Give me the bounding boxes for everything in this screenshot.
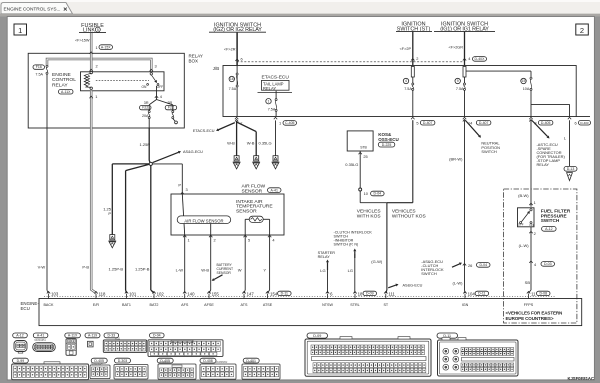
svg-text:OSS-ECU: OSS-ECU xyxy=(378,137,399,142)
KOS / no-KOS merge bracket xyxy=(359,191,361,203)
wire (BR-W)/(L-W) to ECU pin 104 xyxy=(464,120,466,290)
svg-text:D-11: D-11 xyxy=(478,292,485,296)
ECU pin 6 (NTSW) xyxy=(326,292,329,294)
svg-text:154: 154 xyxy=(270,292,278,297)
ECU pin 154 (ATSE) xyxy=(266,292,269,294)
svg-text:W-B: W-B xyxy=(201,268,209,273)
wire branch to neutral position switch (arrow) xyxy=(466,121,480,136)
svg-text:15: 15 xyxy=(522,79,526,83)
ECU pin 118 (E/R) xyxy=(94,292,97,294)
wire 0.35LG from KOS STB pin 25 xyxy=(359,152,362,154)
svg-text:104: 104 xyxy=(468,292,476,297)
svg-text:STB: STB xyxy=(360,145,367,149)
svg-text:AFSE: AFSE xyxy=(204,303,214,307)
svg-text:9: 9 xyxy=(457,79,459,83)
wire IG2 through J/B fuse 16 xyxy=(236,66,238,117)
connector D-405 pinout xyxy=(91,358,107,363)
ECU connector dotted line xyxy=(44,295,556,297)
svg-text:1.25P: 1.25P xyxy=(140,142,151,147)
ECU pin 155 (AFSE) xyxy=(207,292,210,294)
wire W-B no.2 down to body connector xyxy=(237,122,257,132)
svg-text:LG: LG xyxy=(320,268,325,273)
wire IG1 outer branch to junction 6 xyxy=(531,103,570,105)
svg-text:WITHOUT KOS: WITHOUT KOS xyxy=(392,214,426,220)
svg-text:D-225: D-225 xyxy=(382,143,392,147)
svg-text:KJSF0E81AC: KJSF0E81AC xyxy=(567,376,594,381)
wire W to ECU pin 147 xyxy=(244,235,246,290)
svg-text:1: 1 xyxy=(279,121,281,126)
svg-text:(L-W): (L-W) xyxy=(453,280,464,285)
svg-text:OFF: OFF xyxy=(157,85,164,89)
svg-text:ETACS-ECU: ETACS-ECU xyxy=(262,75,290,81)
ECU pin 147 (ATS) xyxy=(242,292,245,294)
svg-text:<F>15W: <F>15W xyxy=(75,39,90,43)
svg-text:W-B: W-B xyxy=(247,141,255,146)
svg-text:D-04: D-04 xyxy=(479,263,487,267)
svg-text:155: 155 xyxy=(212,292,220,297)
svg-text:A-119: A-119 xyxy=(88,334,97,338)
svg-text:3: 3 xyxy=(155,64,157,69)
svg-text:A-11X: A-11X xyxy=(68,334,78,338)
svg-text:140: 140 xyxy=(187,292,195,297)
battery current sensor tap xyxy=(214,275,223,280)
svg-text:RELAY: RELAY xyxy=(318,255,331,259)
splice 10 (D-04) xyxy=(359,188,362,191)
sheet number box 1 xyxy=(14,24,27,35)
svg-text:1: 1 xyxy=(268,99,270,103)
wire 1.25P from F22 to junction node xyxy=(148,128,150,161)
wire P to air flow sensor terminal 3 xyxy=(152,163,182,165)
svg-text:0.35LG: 0.35LG xyxy=(259,141,272,146)
ECU pin 11 (FFPS) xyxy=(527,292,530,294)
svg-text:D-403: D-403 xyxy=(580,121,589,125)
svg-text:3R: 3R xyxy=(144,101,149,105)
svg-text:BAT1: BAT1 xyxy=(122,303,131,307)
wire branch to ASTC-ECU / spare connector / stop lamp relay xyxy=(532,121,548,137)
svg-text:111: 111 xyxy=(388,292,395,297)
band under tab bar xyxy=(0,14,600,17)
wire L to off-page connector D-13 xyxy=(569,120,571,166)
junction 8 at J/B bottom xyxy=(529,117,532,119)
svg-text:ATS: ATS xyxy=(241,303,248,307)
svg-text:P: P xyxy=(178,183,181,188)
svg-text:W: W xyxy=(238,268,242,273)
tab: ENGINE CONTROL SYS... xyxy=(1,3,73,14)
svg-text:E/R: E/R xyxy=(93,303,99,307)
svg-text:D-407: D-407 xyxy=(479,121,489,125)
svg-text:118: 118 xyxy=(99,292,106,297)
svg-text:D-405: D-405 xyxy=(541,121,551,125)
ECU pin 111 (ST) xyxy=(384,292,387,294)
svg-text:18: 18 xyxy=(358,292,363,297)
wire W-B no.1 down to body connector xyxy=(236,121,238,156)
terminals 1 2 5 4 at sensor box bottom xyxy=(183,235,186,237)
svg-text:FFPS: FFPS xyxy=(524,303,534,307)
wire W-B to ECU pin 155 xyxy=(210,235,212,290)
svg-text:SWITCH: SWITCH xyxy=(481,149,497,154)
svg-text:<VEHICLES FOR EASTERN: <VEHICLES FOR EASTERN xyxy=(506,311,563,316)
svg-text:(B-W): (B-W) xyxy=(518,193,529,198)
junction 7 at J/B bottom (IG2 output) xyxy=(235,117,238,119)
wire 0.35LG tail-lamp output down to body connector xyxy=(274,117,277,119)
wire relay-box internal bus (thick hollow) xyxy=(47,59,151,72)
connector D-04 pinout xyxy=(150,333,165,338)
svg-text:D-03: D-03 xyxy=(544,262,552,266)
fuse F16 7.5A xyxy=(33,65,45,69)
svg-text:5: 5 xyxy=(97,28,99,32)
wire V-W from F16 down to ECU pin 103 xyxy=(46,128,48,290)
svg-text:D-09: D-09 xyxy=(313,334,321,338)
svg-text:WITH KOS: WITH KOS xyxy=(357,214,381,220)
svg-text:D-04: D-04 xyxy=(153,334,161,338)
svg-text:P-B: P-B xyxy=(82,264,89,269)
connector D-303 pinout xyxy=(115,358,131,363)
svg-text:W-B: W-B xyxy=(227,141,235,146)
svg-text:D-08: D-08 xyxy=(539,292,547,296)
svg-text:LG: LG xyxy=(348,268,353,273)
relay coil xyxy=(90,71,92,73)
svg-text:ENGINE: ENGINE xyxy=(52,72,71,78)
junction 6 at J/B bottom xyxy=(568,117,571,119)
svg-text:AFS: AFS xyxy=(181,303,189,307)
connector D-405b pinout xyxy=(157,358,173,363)
svg-text:AIR FLOW SENSOR: AIR FLOW SENSOR xyxy=(184,218,223,223)
svg-text:F16: F16 xyxy=(36,65,42,69)
splice 4 (D-03) xyxy=(529,261,532,263)
svg-text:103: 103 xyxy=(51,292,59,297)
svg-text:10A: 10A xyxy=(523,87,530,91)
junction 14 at J/B bottom xyxy=(463,117,466,119)
wire ST from J/B junction 5 down xyxy=(411,117,414,119)
svg-text:7.5A: 7.5A xyxy=(404,87,412,91)
svg-text:<F>2P: <F>2P xyxy=(400,47,412,51)
svg-text:101: 101 xyxy=(129,292,137,297)
thermistor RT (intake air temp) xyxy=(249,216,263,222)
ECU pin 140 (AFS) xyxy=(183,292,186,294)
wire (B-W) from junction 8 to fuel filter pressure switch xyxy=(530,120,532,207)
svg-text:D-405: D-405 xyxy=(94,359,104,363)
connector D-408 pinout xyxy=(200,358,216,363)
splice 26 (D-04) to AS&G-ECU / clutch interlock switch xyxy=(463,264,466,266)
svg-text:V-W: V-W xyxy=(38,264,46,269)
ECU pin 101 (BAT1) xyxy=(125,292,128,294)
svg-text:SB: SB xyxy=(525,280,531,285)
svg-text:IGN: IGN xyxy=(462,303,469,307)
svg-text:RELAY: RELAY xyxy=(537,162,550,167)
wire IG2 down to J/B xyxy=(236,33,238,66)
svg-text:SWITCH: SWITCH xyxy=(541,218,560,223)
svg-text:ON: ON xyxy=(141,85,147,89)
wire relay terminal 1 down (P-B thick hollow) xyxy=(90,91,93,128)
relay box outline xyxy=(28,53,184,128)
svg-text:2: 2 xyxy=(214,238,216,243)
wire ST through J/B fuse 4 xyxy=(411,67,414,78)
switch: fuel filter pressure switch A-12 xyxy=(518,208,535,227)
svg-text:SWITCH (P, N): SWITCH (P, N) xyxy=(334,242,359,246)
svg-text:RELAY: RELAY xyxy=(263,86,276,91)
svg-text:BOX: BOX xyxy=(189,59,199,64)
ecu KOS&OSS-ECU xyxy=(347,131,373,151)
svg-text:<F>2GR: <F>2GR xyxy=(448,45,463,49)
svg-text:2: 2 xyxy=(534,231,536,236)
svg-text:NTSW: NTSW xyxy=(322,303,333,307)
ECU pin 104 (IGN) xyxy=(463,292,466,294)
wire IG1 through J/B fuse 9 xyxy=(463,67,466,78)
svg-text:7.5A: 7.5A xyxy=(229,87,237,91)
svg-text:102: 102 xyxy=(157,292,165,297)
svg-text:SWITCH: SWITCH xyxy=(421,271,437,276)
svg-text:SENSOR: SENSOR xyxy=(217,271,232,275)
svg-text:2: 2 xyxy=(416,56,418,61)
ECU pin 102 (BAT2) xyxy=(152,292,155,294)
svg-text:MU801951: MU801951 xyxy=(35,340,47,342)
connector D-99 pinout xyxy=(13,358,29,363)
svg-text:16: 16 xyxy=(230,77,234,81)
svg-text:RELAY: RELAY xyxy=(52,83,68,89)
connector D-401 pinout xyxy=(243,358,259,363)
connector A-11X pinout xyxy=(65,333,81,338)
svg-text:25: 25 xyxy=(363,154,367,159)
svg-text:1: 1 xyxy=(188,238,190,243)
wire 1.25P-B to ECU pin 101 xyxy=(126,164,151,171)
connector D-11 pinout (engine ECU) xyxy=(437,333,458,338)
wire relay terminal 4 to fuses F22 xyxy=(156,86,158,100)
svg-text:SENSOR: SENSOR xyxy=(236,209,257,215)
svg-text:A-11X: A-11X xyxy=(61,90,71,94)
svg-text:L-W: L-W xyxy=(176,268,184,273)
svg-text:SENSOR: SENSOR xyxy=(242,188,263,194)
relay coil-armature dashed link xyxy=(96,80,149,82)
svg-text:2: 2 xyxy=(96,64,98,69)
svg-text:26: 26 xyxy=(468,263,472,268)
connector A-12 pinout xyxy=(13,333,28,338)
wire 1.25P to body connector (left branch) xyxy=(112,163,151,165)
svg-text:C-405: C-405 xyxy=(285,121,295,125)
svg-text:A-15X: A-15X xyxy=(101,45,111,49)
relay switch armature xyxy=(150,73,152,75)
svg-text:6: 6 xyxy=(575,120,577,125)
svg-text:(G-W): (G-W) xyxy=(371,259,383,264)
svg-text:J/B: J/B xyxy=(213,66,219,71)
svg-text:1: 1 xyxy=(18,26,22,35)
svg-text:ENGINE CONTROL SYS...: ENGINE CONTROL SYS... xyxy=(4,7,61,13)
svg-text:ECU: ECU xyxy=(21,306,30,311)
svg-text:5: 5 xyxy=(416,120,418,125)
wire branch to ETACS-ECU (arrow left) xyxy=(218,123,234,130)
svg-text:ATSE: ATSE xyxy=(263,303,273,307)
svg-text:ST: ST xyxy=(383,303,388,307)
wire IG1 branch to fuse 15 xyxy=(466,70,531,72)
wire Y to ECU pin 154 xyxy=(269,235,271,290)
svg-text:7.5A: 7.5A xyxy=(268,108,276,112)
svg-text:BAT2: BAT2 xyxy=(150,303,159,307)
svg-text:1: 1 xyxy=(534,200,536,205)
fuse 15 10A xyxy=(521,78,526,83)
ECU pin 18 (STRL) xyxy=(353,292,356,294)
svg-text:ON: ON xyxy=(529,223,533,227)
wire merged to ECU pin 111 xyxy=(386,203,388,290)
svg-text:6: 6 xyxy=(241,57,243,62)
svg-text:D-407: D-407 xyxy=(423,121,433,125)
wire L-W to ECU pin 140 xyxy=(184,235,186,293)
svg-text:A-12: A-12 xyxy=(545,227,552,231)
svg-text:3: 3 xyxy=(186,187,188,192)
svg-text:1: 1 xyxy=(95,94,97,99)
svg-text:A-12: A-12 xyxy=(16,334,23,338)
svg-text:CONTROL: CONTROL xyxy=(52,77,76,83)
splice tap to AS&G-ECU near pin 111 xyxy=(388,285,396,288)
svg-text:4: 4 xyxy=(405,79,407,83)
svg-text:20A: 20A xyxy=(142,114,149,118)
svg-text:D-303: D-303 xyxy=(118,359,128,363)
svg-text:AS&G-ECU: AS&G-ECU xyxy=(183,150,203,154)
svg-text:(BR-W): (BR-W) xyxy=(449,156,463,161)
svg-text:(L-W): (L-W) xyxy=(519,243,530,248)
connector A-41 pinout xyxy=(33,333,48,338)
svg-text:D-13: D-13 xyxy=(567,167,575,171)
svg-text:D-04: D-04 xyxy=(374,192,382,196)
svg-text:ETACS-ECU: ETACS-ECU xyxy=(193,129,215,133)
svg-text:P: P xyxy=(108,211,111,216)
dashed bus linking ignition feeds xyxy=(237,61,464,63)
air flow sensor / intake air temperature sensor box xyxy=(171,194,284,235)
ECU pin 103 (BACK) xyxy=(47,292,50,294)
svg-text:D-11: D-11 xyxy=(281,292,288,296)
svg-text:OFF: OFF xyxy=(518,223,524,227)
svg-text:11: 11 xyxy=(531,292,536,297)
svg-text:5: 5 xyxy=(248,238,250,243)
svg-text:EUROPE COUNTRIES>: EUROPE COUNTRIES> xyxy=(506,316,554,321)
tab bar xyxy=(0,0,600,14)
fuse 1 7.5A of tail lamp circuit xyxy=(275,91,277,99)
svg-text:D-99: D-99 xyxy=(17,359,25,363)
svg-text:1: 1 xyxy=(96,45,98,50)
svg-text:7.5A: 7.5A xyxy=(456,87,464,91)
connector D-33 pinout xyxy=(104,333,119,338)
wire F16 down (V-W) exits relay box xyxy=(46,74,48,128)
svg-text:A-41: A-41 xyxy=(37,334,44,338)
connector D-09 pinout (engine ECU) xyxy=(307,333,328,338)
svg-text:STRL: STRL xyxy=(350,303,359,307)
svg-text:D-33: D-33 xyxy=(108,334,116,338)
svg-text:D-408: D-408 xyxy=(203,359,213,363)
wire fusible link down to relay box (thick hollow) xyxy=(90,33,93,53)
svg-text:AS&G-ECU: AS&G-ECU xyxy=(403,284,423,288)
svg-text:D-40X: D-40X xyxy=(475,57,486,61)
wire IG1 down to J/B xyxy=(464,32,466,66)
wire splice to AS&G-ECU (arrow) xyxy=(153,152,179,162)
sheet number box 2 xyxy=(576,24,589,35)
wire P-B relay output down to ECU pin 118 (thick hollow) xyxy=(91,128,96,293)
svg-text:Y: Y xyxy=(263,268,266,273)
svg-text:<F>2R: <F>2R xyxy=(224,47,236,51)
svg-text:1.25P-B: 1.25P-B xyxy=(109,267,124,272)
svg-text:147: 147 xyxy=(247,292,255,297)
svg-text:D-09: D-09 xyxy=(366,292,374,296)
svg-text:2: 2 xyxy=(580,26,584,35)
tab close button xyxy=(64,8,67,11)
svg-text:0.35LG: 0.35LG xyxy=(345,162,358,167)
svg-text:F22: F22 xyxy=(142,106,148,110)
wire 1.25P-B to ECU pin 102 xyxy=(150,164,152,290)
svg-text:1.25P-B: 1.25P-B xyxy=(135,267,150,272)
wire (L-W)/SB to ECU pin 11 xyxy=(530,227,532,290)
svg-text:7.5A: 7.5A xyxy=(35,73,43,77)
svg-text:A-41: A-41 xyxy=(271,188,278,192)
wire ST down to J/B xyxy=(412,32,414,66)
svg-text:BACK: BACK xyxy=(43,303,54,307)
svg-text:3R: 3R xyxy=(167,101,172,105)
eastern europe dash-dot box xyxy=(504,189,577,323)
connector A-119 pinout xyxy=(85,333,100,338)
